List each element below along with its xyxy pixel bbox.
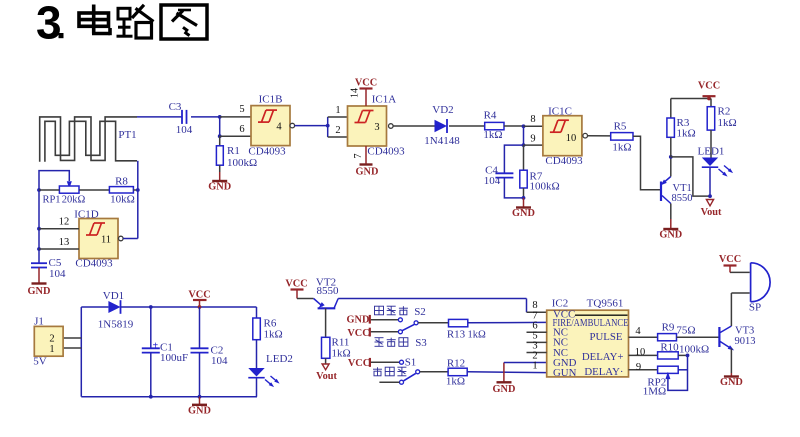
svg-text:8: 8	[530, 114, 535, 125]
svg-text:CD4093: CD4093	[75, 258, 113, 270]
svg-text:100kΩ: 100kΩ	[530, 181, 560, 193]
svg-text:10: 10	[566, 133, 577, 144]
svg-text:S1: S1	[405, 357, 417, 369]
svg-text:104: 104	[211, 355, 228, 367]
svg-text:GND: GND	[347, 315, 370, 326]
svg-text:8550: 8550	[317, 285, 340, 297]
svg-text:R10: R10	[660, 341, 679, 353]
svg-text:2: 2	[49, 334, 54, 345]
svg-text:IC1B: IC1B	[259, 94, 283, 106]
svg-text:1MΩ: 1MΩ	[643, 386, 666, 398]
svg-text:3: 3	[36, 0, 62, 49]
svg-text:100kΩ: 100kΩ	[679, 344, 709, 356]
svg-text:R1: R1	[227, 145, 240, 157]
svg-text:PT1: PT1	[118, 129, 136, 141]
svg-text:IC1A: IC1A	[372, 94, 397, 106]
svg-text:VCC: VCC	[347, 328, 369, 339]
svg-text:100uF: 100uF	[160, 352, 188, 364]
svg-text:CD4093: CD4093	[367, 146, 405, 158]
svg-text:CD4093: CD4093	[545, 155, 583, 167]
svg-text:VCC: VCC	[355, 77, 377, 88]
svg-text:8: 8	[532, 300, 537, 311]
svg-text:12: 12	[59, 217, 70, 228]
svg-text:S3: S3	[415, 337, 427, 349]
svg-text:1kΩ: 1kΩ	[264, 329, 283, 341]
svg-text:5V: 5V	[33, 356, 47, 368]
svg-text:7: 7	[353, 154, 364, 159]
svg-text:C3: C3	[169, 101, 182, 113]
svg-text:9: 9	[636, 362, 641, 373]
svg-text:14: 14	[350, 88, 361, 98]
svg-text:75Ω: 75Ω	[676, 325, 695, 337]
svg-text:GND: GND	[512, 208, 535, 219]
svg-text:LED2: LED2	[266, 353, 293, 365]
svg-text:RP1: RP1	[42, 195, 60, 206]
svg-text:100kΩ: 100kΩ	[227, 157, 257, 169]
svg-text:IC1D: IC1D	[74, 209, 99, 221]
svg-text:S2: S2	[414, 306, 426, 318]
svg-text:Vout: Vout	[316, 371, 337, 382]
svg-text:R8: R8	[115, 176, 128, 188]
svg-text:1N5819: 1N5819	[98, 319, 134, 331]
svg-text:104: 104	[49, 268, 66, 280]
svg-text:8550: 8550	[672, 193, 693, 204]
svg-text:R9: R9	[662, 322, 675, 334]
svg-text:R2: R2	[718, 106, 731, 118]
svg-text:10: 10	[635, 347, 646, 358]
svg-text:5: 5	[239, 104, 244, 115]
svg-text:GND: GND	[493, 384, 516, 395]
svg-text:SP: SP	[749, 302, 761, 314]
svg-text:6: 6	[239, 124, 244, 135]
svg-text:1: 1	[49, 344, 54, 355]
svg-text:11: 11	[101, 235, 111, 246]
svg-text:20kΩ: 20kΩ	[62, 195, 86, 206]
svg-text:VD1: VD1	[103, 290, 124, 302]
svg-text:VCC: VCC	[698, 80, 720, 91]
svg-text:13: 13	[59, 237, 70, 248]
svg-text:LED1: LED1	[698, 146, 725, 158]
svg-text:R13: R13	[447, 329, 466, 341]
svg-text:104: 104	[176, 124, 193, 136]
svg-text:VCC: VCC	[188, 289, 210, 300]
svg-text:Vout: Vout	[701, 207, 722, 218]
svg-text:1kΩ: 1kΩ	[718, 117, 737, 129]
svg-text:VCC: VCC	[348, 358, 370, 369]
svg-text:DELAY·: DELAY·	[584, 366, 623, 378]
svg-text:1: 1	[335, 105, 340, 116]
svg-text:GND: GND	[28, 286, 51, 297]
svg-text:104: 104	[484, 175, 501, 187]
svg-text:CD4093: CD4093	[248, 146, 286, 158]
svg-text:1N4148: 1N4148	[424, 135, 460, 147]
svg-text:R5: R5	[614, 121, 627, 133]
svg-text:GND: GND	[188, 405, 211, 416]
svg-text:+: +	[153, 341, 159, 352]
svg-text:1: 1	[532, 361, 537, 372]
svg-text:9013: 9013	[735, 336, 756, 347]
svg-text:GUN: GUN	[553, 367, 577, 379]
svg-text:PULSE: PULSE	[590, 331, 623, 343]
svg-text:1kΩ: 1kΩ	[468, 330, 487, 341]
svg-text:3: 3	[374, 122, 379, 133]
svg-text:VCC: VCC	[719, 254, 741, 265]
svg-text:VT3: VT3	[735, 326, 754, 337]
svg-text:9: 9	[530, 134, 535, 145]
svg-text:R12: R12	[447, 357, 465, 369]
svg-text:10kΩ: 10kΩ	[110, 194, 135, 206]
svg-text:GND: GND	[356, 167, 379, 178]
svg-text:IC1C: IC1C	[548, 106, 572, 118]
svg-text:4: 4	[276, 122, 282, 133]
svg-text:J1: J1	[34, 316, 44, 328]
svg-text:1kΩ: 1kΩ	[446, 376, 465, 388]
svg-text:VD2: VD2	[432, 104, 453, 116]
svg-text:GND: GND	[208, 182, 231, 193]
svg-text:DELAY+: DELAY+	[582, 351, 624, 363]
svg-text:GND: GND	[659, 230, 682, 241]
svg-text:1kΩ: 1kΩ	[612, 142, 631, 154]
svg-text:4: 4	[635, 326, 641, 337]
svg-text:2: 2	[335, 125, 340, 136]
svg-text:GND: GND	[720, 377, 743, 388]
svg-text:R4: R4	[484, 110, 497, 122]
svg-text:1kΩ: 1kΩ	[483, 129, 502, 141]
svg-text:VCC: VCC	[285, 279, 307, 290]
svg-text:1kΩ: 1kΩ	[677, 128, 696, 140]
svg-text:TQ9561: TQ9561	[587, 298, 624, 310]
